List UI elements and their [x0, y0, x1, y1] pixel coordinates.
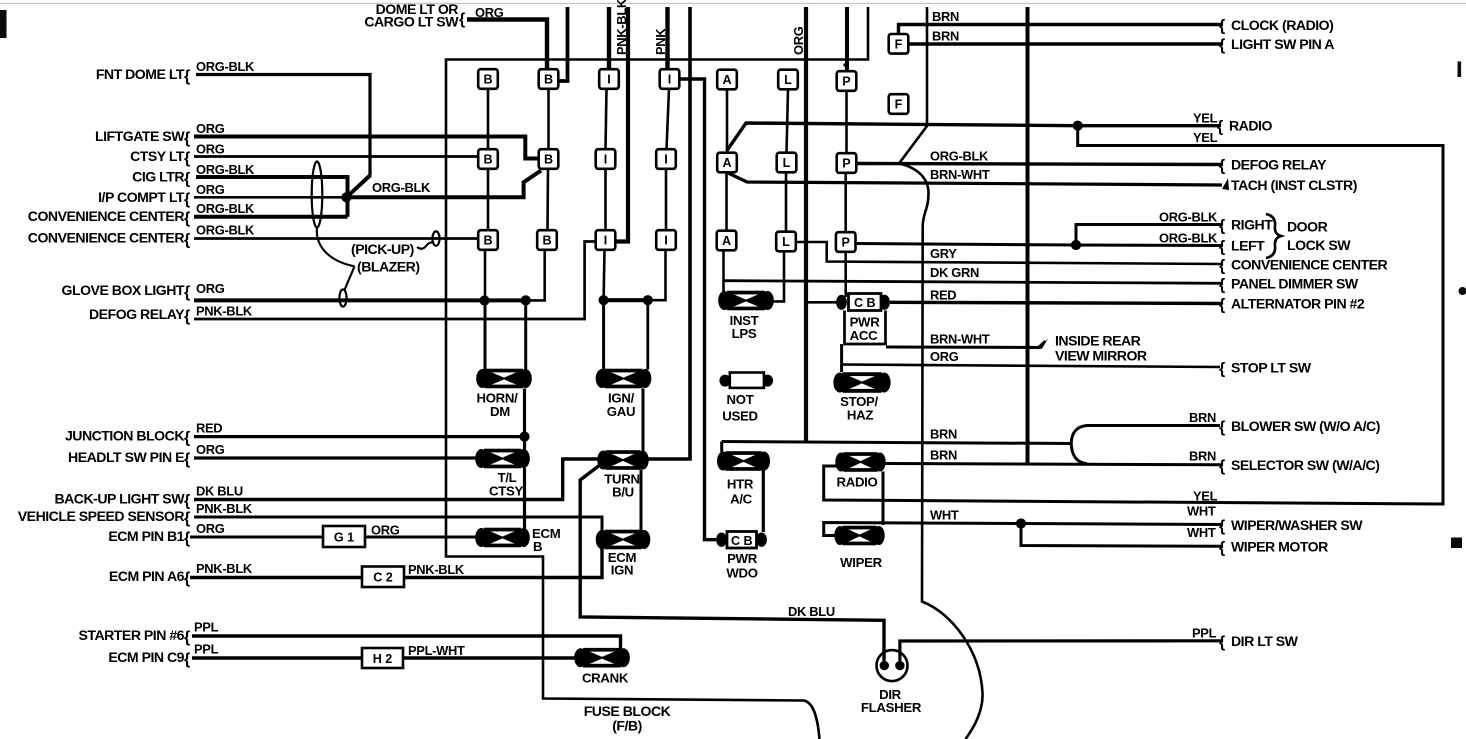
junction dot glove/horn: [521, 295, 531, 305]
fuse T/L CTSY: [475, 449, 530, 469]
svg-text:ORG: ORG: [371, 523, 400, 538]
svg-text:FLASHER: FLASHER: [861, 700, 922, 715]
box B row2 col2: [539, 149, 559, 169]
svg-text:BRN: BRN: [932, 9, 959, 24]
junction dot radio: [1073, 121, 1083, 131]
svg-text:JUNCTION BLOCK: JUNCTION BLOCK: [65, 428, 185, 444]
svg-text:A/C: A/C: [730, 492, 753, 507]
wire A3 down to INST LPS left: [722, 251, 725, 292]
svg-text:NOT: NOT: [727, 392, 754, 407]
right edge mark 1: [1458, 62, 1462, 78]
svg-text:LOCK SW: LOCK SW: [1287, 237, 1351, 253]
svg-text:ECM PIN C9: ECM PIN C9: [108, 649, 184, 665]
svg-text:B: B: [544, 153, 553, 167]
svg-text:{: {: [1219, 258, 1225, 275]
svg-text:ECM PIN A6: ECM PIN A6: [109, 568, 185, 584]
svg-text:F: F: [895, 37, 903, 51]
svg-text:WHT: WHT: [1187, 504, 1216, 519]
fuse ECM IGN: [596, 530, 651, 550]
wire YEL2 branch: [824, 126, 1443, 504]
svg-text:WHT: WHT: [1187, 525, 1216, 540]
brace door lock: [1266, 214, 1281, 258]
box P row1: [837, 71, 857, 91]
svg-text:{: {: [184, 629, 190, 646]
svg-text:WIPER MOTOR: WIPER MOTOR: [1231, 539, 1328, 555]
wire light sw pin a: [909, 42, 1223, 45]
wire CONVENIENCE CENTER 1: [194, 215, 348, 219]
svg-text:C 2: C 2: [373, 571, 393, 585]
box L row3: [776, 232, 796, 252]
wire C2 to ECM IGN: [404, 546, 602, 578]
svg-text:{: {: [1219, 540, 1225, 557]
svg-text:{: {: [1219, 634, 1225, 651]
svg-text:PPL: PPL: [1192, 626, 1217, 641]
box L row2: [777, 153, 797, 173]
svg-text:ORG: ORG: [196, 281, 225, 296]
wire vertical PNK-BLK long: [615, 7, 628, 242]
svg-text:ORG-BLK: ORG-BLK: [196, 59, 255, 74]
svg-text:BRN: BRN: [932, 29, 959, 44]
svg-text:I: I: [664, 234, 668, 248]
wire vertical ORG long: [804, 7, 808, 442]
wire dir lt sw: [900, 641, 1222, 661]
svg-text:DEFOG RELAY: DEFOG RELAY: [1231, 157, 1327, 173]
svg-text:ORG: ORG: [196, 521, 225, 536]
svg-text:{: {: [184, 68, 190, 85]
wire thick between I dots: [604, 298, 648, 302]
svg-text:FNT DOME LT: FNT DOME LT: [96, 66, 185, 82]
wire B1-B2 col1: [487, 89, 490, 149]
wire ECM C9 to H2: [192, 656, 362, 659]
svg-text:YEL: YEL: [1193, 130, 1218, 145]
svg-text:ORG: ORG: [196, 182, 225, 197]
fuse block boundary left/top/bottom: [446, 7, 868, 739]
svg-text:{: {: [1219, 239, 1225, 256]
svg-text:RED: RED: [930, 288, 956, 303]
box B row3 col1: [478, 230, 498, 250]
wire thin to I3#2 riser: [648, 250, 666, 300]
svg-text:BRN: BRN: [1189, 410, 1216, 425]
svg-text:RADIO: RADIO: [837, 475, 878, 490]
box I row3 col1: [596, 230, 616, 250]
svg-text:{: {: [184, 651, 190, 668]
svg-text:ORG-BLK: ORG-BLK: [1159, 210, 1218, 225]
svg-text:C B: C B: [854, 296, 876, 310]
wire L2-L3: [785, 173, 788, 232]
fuse block boundary right side (vertical, hop curve, big arc around flasher): [899, 7, 983, 739]
junction dot RED/horn column: [519, 432, 529, 442]
svg-text:I: I: [604, 153, 608, 167]
wire vertical long x1027: [1026, 7, 1030, 464]
svg-text:PNK-BLK: PNK-BLK: [196, 561, 253, 576]
box A row3: [717, 231, 737, 251]
wire B2-B3 col1: [487, 169, 490, 230]
svg-text:ORG: ORG: [930, 349, 959, 364]
svg-text:LIFTGATE SW: LIFTGATE SW: [95, 128, 185, 144]
wire FNT DOME LT org-blk: [196, 75, 370, 176]
wire ECM A6 to C2: [190, 576, 362, 579]
svg-text:GLOVE BOX LIGHT: GLOVE BOX LIGHT: [62, 282, 185, 298]
svg-text:VIEW MIRROR: VIEW MIRROR: [1055, 348, 1147, 364]
svg-text:PNK-BLK: PNK-BLK: [408, 562, 465, 577]
svg-text:SELECTOR SW (W/A/C): SELECTOR SW (W/A/C): [1231, 457, 1379, 473]
svg-text:{: {: [459, 11, 465, 28]
box B row1 col1: [478, 69, 498, 89]
box B row2 col1: [478, 149, 498, 169]
fuse STOP/HAZ: [833, 372, 890, 393]
pointer line to glove oval: [345, 266, 355, 290]
svg-text:{: {: [184, 510, 190, 527]
wire P2-P3: [844, 173, 847, 232]
svg-text:(F/B): (F/B): [612, 718, 642, 734]
svg-text:USED: USED: [722, 409, 757, 424]
wire G1 to ECM B: [365, 536, 479, 539]
svg-text:ECM PIN B1: ECM PIN B1: [108, 528, 184, 544]
box I row1 col1: [599, 69, 619, 89]
svg-text:{: {: [1219, 18, 1225, 35]
wire ORG-BLK RIGHT branch: [1076, 225, 1222, 246]
svg-text:B: B: [483, 73, 492, 87]
dir flasher circle: [877, 650, 908, 681]
svg-text:ORG: ORG: [791, 26, 806, 55]
svg-text:YEL: YEL: [1193, 111, 1218, 126]
wire T/L right down to ECM B right: [523, 468, 526, 529]
svg-text:I: I: [607, 73, 611, 87]
svg-text:{: {: [184, 171, 190, 188]
wire stub ORG col to PWR ACC: [806, 301, 842, 304]
svg-text:HEADLT SW PIN E: HEADLT SW PIN E: [68, 449, 184, 465]
svg-text:DK GRN: DK GRN: [930, 265, 979, 280]
wire GRY conv center from L3: [796, 242, 1222, 264]
svg-text:PPL: PPL: [194, 642, 219, 657]
svg-text:{: {: [1219, 158, 1225, 175]
right edge mark 2: [1459, 287, 1466, 295]
svg-text:IGN: IGN: [611, 563, 634, 578]
fuse ECM B: [475, 528, 530, 548]
svg-text:BRN: BRN: [930, 427, 957, 442]
svg-text:BRN-WHT: BRN-WHT: [930, 332, 990, 347]
wire F1 riser clock: [899, 25, 1223, 35]
svg-text:PNK-BLK: PNK-BLK: [614, 0, 629, 55]
fuse WIPER: [834, 526, 884, 546]
svg-text:{: {: [184, 493, 190, 510]
wire L1-L2: [787, 90, 789, 153]
svg-text:CTSY: CTSY: [489, 484, 523, 499]
svg-text:BRN-WHT: BRN-WHT: [930, 167, 990, 182]
svg-text:{: {: [184, 451, 190, 468]
svg-text:H 2: H 2: [373, 652, 393, 666]
svg-text:{: {: [184, 308, 190, 325]
svg-text:PPL: PPL: [194, 620, 219, 635]
svg-text:GAU: GAU: [607, 404, 635, 419]
svg-text:GRY: GRY: [930, 246, 957, 261]
box B row3 col2: [537, 230, 557, 250]
wire VSS pnk-blk: [194, 517, 602, 531]
junction dot wiper: [1016, 518, 1026, 528]
svg-text:I: I: [664, 153, 668, 167]
svg-text:ALTERNATOR PIN #2: ALTERNATOR PIN #2: [1231, 296, 1365, 312]
svg-text:PNK: PNK: [653, 28, 668, 55]
svg-text:ORG: ORG: [196, 442, 225, 457]
wire I/P COMPT LT org: [194, 196, 346, 199]
harness ellipse: [312, 162, 323, 228]
svg-text:CTSY LT: CTSY LT: [130, 148, 185, 164]
wire LIFTGATE SW org: [194, 137, 539, 159]
svg-text:TACH (INST CLSTR): TACH (INST CLSTR): [1231, 177, 1357, 193]
svg-text:B/U: B/U: [612, 485, 634, 500]
svg-text:RED: RED: [196, 421, 222, 436]
wire thin to B3#2 riser: [526, 250, 545, 300]
wire vertical feed I2 (PNK): [665, 7, 669, 70]
svg-text:{: {: [184, 130, 190, 147]
wire A1-A2: [726, 90, 729, 153]
svg-text:ORG-BLK: ORG-BLK: [372, 180, 431, 195]
svg-text:L: L: [784, 73, 792, 87]
svg-text:G 1: G 1: [334, 531, 354, 545]
wire I2-I3 col2: [665, 169, 668, 230]
svg-text:RIGHT: RIGHT: [1231, 217, 1273, 233]
svg-text:(BLAZER): (BLAZER): [357, 259, 420, 275]
wire dot to IGN right cap: [646, 300, 649, 369]
circuit breaker PWR ACC: [836, 294, 890, 345]
svg-text:CARGO LT SW: CARGO LT SW: [364, 14, 459, 30]
svg-text:DOOR: DOOR: [1287, 219, 1328, 235]
svg-text:YEL: YEL: [1193, 489, 1218, 504]
wire P3 down to PWR ACC: [844, 253, 847, 298]
wire B1-B2 col2: [547, 89, 550, 149]
svg-text:{: {: [1219, 518, 1225, 535]
wire BRN trunk blower: [722, 442, 1071, 444]
fuse NOT USED (open): [719, 373, 773, 388]
wire SELECTOR from RADIO right: [883, 464, 1222, 465]
svg-text:{: {: [184, 284, 190, 301]
wire GLOVE BOX LIGHT org: [194, 298, 526, 302]
wire WHT wiper washer: [824, 523, 1222, 536]
svg-text:INSIDE REAR: INSIDE REAR: [1055, 333, 1141, 349]
svg-text:(PICK-UP): (PICK-UP): [351, 241, 414, 257]
junction dot glove/Bcol: [479, 295, 489, 305]
svg-text:{: {: [184, 530, 190, 547]
wire PWR ACC box to STOP/HAZ: [840, 344, 843, 372]
circuit breaker PWR WDO: [716, 532, 767, 549]
wire vertical long x690 to TURN B/U: [647, 7, 691, 459]
fuse TURN B/U: [597, 450, 648, 470]
svg-text:L: L: [783, 156, 791, 170]
svg-text:WHT: WHT: [930, 508, 959, 523]
svg-text:P: P: [841, 236, 849, 250]
wire I1-I2 col2: [667, 89, 670, 149]
wire A2-A3: [725, 173, 728, 231]
wire ORG-BLK LEFT from P3: [856, 244, 1222, 246]
box I row1 col2: [660, 69, 680, 89]
box A row2: [717, 153, 737, 173]
svg-text:B: B: [542, 234, 551, 248]
fuse HTR A/C: [717, 451, 770, 471]
svg-text:DEFOG RELAY: DEFOG RELAY: [89, 306, 185, 322]
svg-text:B: B: [483, 153, 492, 167]
svg-text:ORG-BLK: ORG-BLK: [196, 201, 255, 216]
box I row2 col2: [656, 149, 676, 169]
wire BACK-UP dk blu: [194, 459, 601, 500]
wire L3 down to INST LPS right jog: [771, 252, 784, 301]
wire DEFOG from P2: [857, 164, 1223, 165]
svg-text:A: A: [722, 156, 731, 170]
wire vertical feed I1: [607, 7, 611, 70]
svg-text:{: {: [184, 150, 190, 167]
svg-text:{: {: [1219, 361, 1225, 378]
wire IGN right cap down to TURN right: [642, 389, 645, 452]
svg-text:BRN: BRN: [930, 448, 957, 463]
svg-text:CIG LTR: CIG LTR: [132, 169, 184, 185]
svg-text:PWR: PWR: [727, 551, 758, 566]
wire vertical feed P1: [845, 7, 849, 72]
svg-text:ORG-BLK: ORG-BLK: [196, 223, 255, 238]
wire I3#1 down to dot, to IGN left: [602, 250, 606, 300]
box B row1 col2: [539, 69, 559, 89]
box F row1: [889, 34, 909, 54]
svg-text:A: A: [722, 234, 731, 248]
svg-text:{: {: [1219, 297, 1225, 314]
wire I1-I2 col1: [606, 89, 607, 149]
svg-text:BACK-UP LIGHT SW: BACK-UP LIGHT SW: [54, 491, 185, 507]
connector H 2: [362, 648, 403, 668]
svg-text:I: I: [668, 73, 672, 87]
wire WIPER MOTOR branch: [1021, 524, 1222, 547]
fuse RADIO: [835, 452, 885, 472]
box L row1: [778, 70, 798, 90]
svg-text:WIPER/WASHER SW: WIPER/WASHER SW: [1231, 517, 1363, 533]
svg-text:{: {: [1217, 119, 1223, 136]
wire HTR right down to PWR WDO: [762, 469, 765, 532]
svg-text:PNK-BLK: PNK-BLK: [196, 304, 253, 319]
svg-text:CLOCK (RADIO): CLOCK (RADIO): [1231, 17, 1333, 33]
wire JUNCTION BLOCK red: [194, 435, 525, 438]
svg-text:{: {: [1219, 37, 1225, 54]
svg-text:C B: C B: [731, 534, 753, 548]
svg-text:I/P COMPT LT: I/P COMPT LT: [98, 189, 185, 205]
svg-text:STOP LT SW: STOP LT SW: [1231, 360, 1312, 376]
svg-text:VEHICLE SPEED SENSOR: VEHICLE SPEED SENSOR: [18, 508, 185, 524]
svg-text:ORG-BLK: ORG-BLK: [930, 149, 989, 164]
box I row3 col2: [656, 230, 676, 250]
svg-text:WDO: WDO: [726, 566, 757, 581]
svg-text:{: {: [184, 191, 190, 208]
wire hook into B1#2 right: [558, 7, 568, 81]
svg-text:{: {: [184, 570, 190, 587]
fuse INST LPS: [718, 291, 774, 311]
svg-text:DM: DM: [490, 404, 510, 419]
svg-text:DIR LT SW: DIR LT SW: [1231, 633, 1299, 649]
fuse CRANK: [574, 648, 630, 668]
svg-text:{: {: [184, 232, 190, 249]
wire long from I1#2 jog down to PWR WDO: [679, 79, 717, 540]
svg-text:HTR: HTR: [727, 477, 754, 492]
box A row1: [717, 70, 737, 90]
svg-text:ORG: ORG: [196, 121, 225, 136]
box P row3: [836, 232, 856, 252]
svg-text:{: {: [1219, 458, 1225, 475]
wire CONVENIENCE CENTER 2: [194, 237, 478, 240]
svg-text:{: {: [1219, 218, 1225, 235]
svg-text:PANEL DIMMER SW: PANEL DIMMER SW: [1231, 276, 1359, 292]
wire P1-P2: [845, 91, 848, 153]
svg-text:L: L: [782, 235, 790, 249]
svg-text:CRANK: CRANK: [582, 671, 629, 686]
wire TURN right down to ECM IGN right: [640, 470, 643, 531]
wire DK BLU from TURN diag to flasher: [580, 465, 884, 662]
svg-text:ORG: ORG: [196, 142, 225, 157]
svg-text:A: A: [722, 73, 731, 87]
junction dot door lock: [1071, 240, 1081, 250]
junction dot I col right: [643, 295, 653, 305]
svg-text:LIGHT SW PIN A: LIGHT SW PIN A: [1231, 36, 1334, 52]
wire H2 to CRANK: [403, 656, 577, 659]
small oval on glove wire: [339, 289, 346, 306]
svg-text:P: P: [842, 157, 850, 171]
svg-text:WIPER: WIPER: [840, 555, 883, 570]
wire dome/cargo to B1#2: [467, 20, 547, 71]
svg-text:LPS: LPS: [732, 326, 757, 341]
svg-text:BLOWER SW (W/O A/C): BLOWER SW (W/O A/C): [1231, 418, 1380, 434]
box F row2: [889, 94, 909, 114]
junction dot pwr acc left cap: [836, 297, 846, 307]
wire HORN right cap down to T/L right: [523, 389, 526, 450]
svg-text:BRN: BRN: [1189, 449, 1216, 464]
squiggle pickup to oval: [417, 242, 434, 248]
wire ECM B1 to G1: [190, 536, 323, 539]
svg-text:ACC: ACC: [850, 328, 878, 343]
box P row2: [837, 153, 857, 173]
wire TACH from A2: [727, 173, 1222, 186]
wire DEFOG RELAY pnk-blk to I3#1: [194, 242, 596, 320]
wire diagonal to junction: [346, 175, 370, 197]
svg-text:PNK-BLK: PNK-BLK: [196, 501, 253, 516]
svg-text:CONVENIENCE CENTER: CONVENIENCE CENTER: [28, 208, 185, 224]
wire CIG LTR org-blk down to junction: [196, 177, 348, 217]
right edge mark 3: [1451, 538, 1462, 549]
wire dot to HORN right cap: [524, 300, 527, 369]
svg-text:I: I: [604, 234, 608, 248]
svg-text:ORG-BLK: ORG-BLK: [196, 162, 255, 177]
junction dot cig/ip/conv: [341, 192, 351, 202]
wire RADIO right down to WIPER right: [882, 472, 885, 526]
wire STARTER ppl to CRANK right: [192, 636, 621, 652]
wire B3#1 down to dot and HORN left: [484, 250, 487, 301]
svg-text:RADIO: RADIO: [1229, 118, 1272, 134]
svg-text:HAZ: HAZ: [847, 408, 873, 423]
svg-text:CONVENIENCE CENTER: CONVENIENCE CENTER: [1231, 257, 1388, 273]
svg-text:CONVENIENCE CENTER: CONVENIENCE CENTER: [28, 230, 185, 246]
svg-text:{: {: [1219, 419, 1225, 436]
svg-text:{: {: [184, 210, 190, 227]
svg-text:P: P: [842, 75, 850, 89]
connector C 2: [362, 567, 404, 588]
wire BLOWER: [1086, 424, 1220, 427]
wire HEADLT org: [194, 456, 479, 459]
svg-text:PPL-WHT: PPL-WHT: [408, 643, 465, 658]
box I row2 col1: [596, 149, 616, 169]
wire HTR left feed from BRN: [720, 442, 723, 453]
wire DK GRN panel dimmer from A3 col: [724, 281, 1223, 284]
fuse IGN/GAU: [596, 369, 652, 389]
svg-text:F: F: [895, 98, 903, 112]
small oval on conv2 wire: [432, 231, 439, 245]
svg-text:DK BLU: DK BLU: [196, 484, 243, 499]
wire I2-I3 col1: [604, 169, 607, 230]
stray dot: [843, 63, 846, 66]
svg-text:{: {: [184, 430, 190, 447]
svg-text:STARTER PIN #6: STARTER PIN #6: [78, 627, 184, 643]
